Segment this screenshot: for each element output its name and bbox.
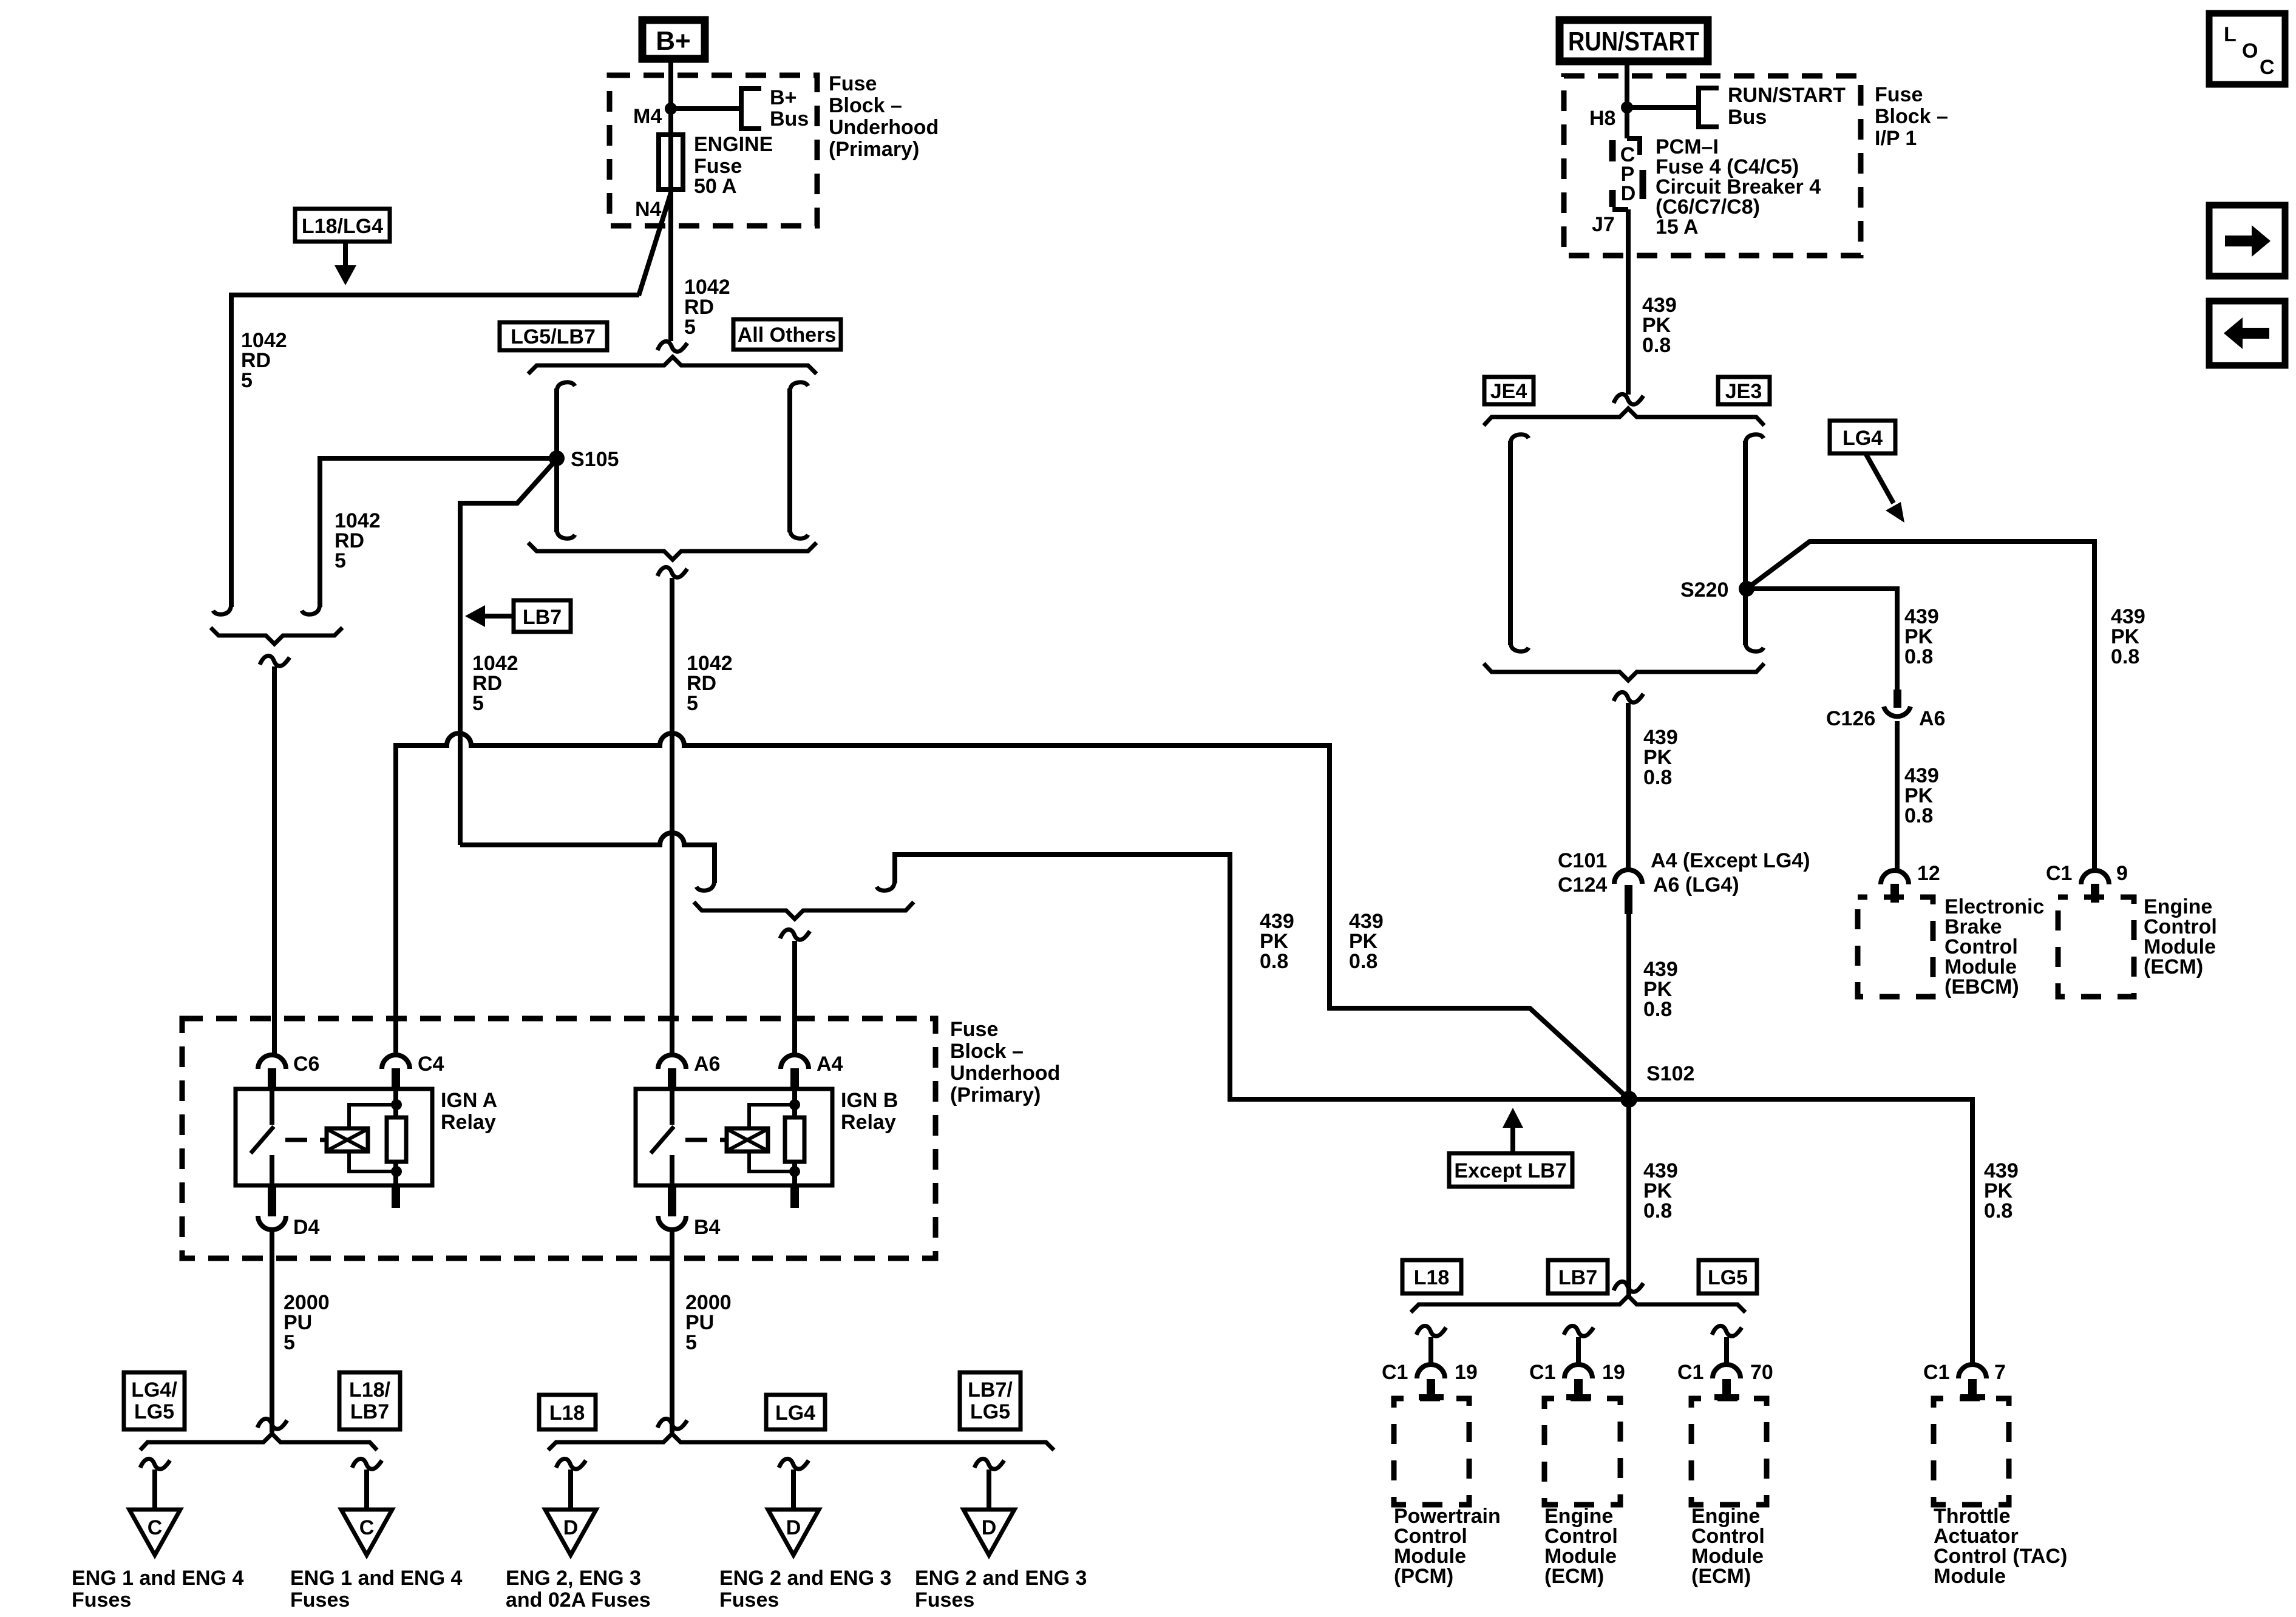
svg-text:0.8: 0.8 — [1260, 950, 1288, 973]
splice S105 — [549, 448, 619, 471]
svg-text:D4: D4 — [293, 1216, 320, 1239]
wire long horizontal to C4 with hops, to S102 via jog — [396, 733, 1626, 1096]
svg-text:5: 5 — [685, 1331, 697, 1354]
option label box LG5/LB7 — [500, 322, 607, 350]
splice S220 — [1680, 578, 1754, 602]
svg-text:L18: L18 — [549, 1402, 585, 1425]
svg-text:ENG 2 and ENG 3: ENG 2 and ENG 3 — [719, 1567, 891, 1590]
svg-text:LG4/: LG4/ — [131, 1378, 177, 1402]
connector C1 70 (ECM) — [1677, 1361, 1773, 1400]
relay IGN B switch — [651, 1088, 674, 1185]
option label box LB7/LG5 — [960, 1372, 1021, 1429]
svg-text:B4: B4 — [694, 1216, 721, 1239]
module ECM2 label — [1691, 1505, 1765, 1588]
option merge brace JE (bottom) — [1484, 663, 1764, 680]
label box Except LB7 with arrow — [1449, 1108, 1572, 1187]
svg-text:Bus: Bus — [1728, 106, 1767, 129]
svg-text:LG5: LG5 — [970, 1400, 1010, 1423]
svg-text:(Primary): (Primary) — [829, 138, 919, 161]
svg-text:D: D — [982, 1516, 997, 1539]
break symbol drop C left — [140, 1459, 170, 1469]
break symbol on B4 drop — [657, 1419, 687, 1429]
wire drop to ECM1 — [1576, 1337, 1581, 1364]
svg-text:Block –: Block – — [1875, 105, 1948, 128]
wire S220 to C126 (horizontal arm) — [1747, 589, 1897, 690]
wire S102 down to engine option split — [1626, 1099, 1631, 1297]
fuse block underhood primary (relay) label — [950, 1018, 1060, 1107]
svg-text:O: O — [2242, 39, 2258, 63]
wire M4 to B+ Bus — [671, 106, 741, 111]
relay IGN A resistor — [387, 1088, 406, 1185]
wire drop to C terminal left — [152, 1470, 157, 1520]
svg-text:C: C — [148, 1516, 163, 1539]
svg-text:L18/: L18/ — [349, 1378, 391, 1402]
wire S102 right arm to TAC — [1629, 1099, 1972, 1364]
svg-text:N4: N4 — [635, 198, 662, 221]
fuse block underhood primary (top) dashed box — [610, 75, 817, 226]
relay IGN A mechanical link dashes — [285, 1138, 327, 1142]
svg-text:IGN A: IGN A — [441, 1089, 497, 1112]
wire C101 to S102 — [1626, 914, 1631, 1091]
destination label ENG 1 and ENG 4 Fuses (left) — [72, 1567, 243, 1612]
svg-text:(ECM): (ECM) — [2144, 955, 2203, 978]
wire label 439 PK 0.8 (LG4 riser) — [2111, 605, 2145, 668]
split brace (ENG2/ENG3 fuses) — [548, 1434, 1054, 1450]
svg-text:RUN/START: RUN/START — [1568, 27, 1699, 56]
inline connector C126 A6 — [1826, 690, 1945, 730]
svg-text:and 02A Fuses: and 02A Fuses — [506, 1588, 651, 1612]
svg-text:0.8: 0.8 — [1984, 1199, 2012, 1222]
wire label 439 PK 0.8 (TAC) — [1984, 1159, 2019, 1222]
svg-text:D: D — [563, 1516, 579, 1539]
svg-text:Fuses: Fuses — [290, 1588, 350, 1612]
wire H8 to RUN/START Bus — [1627, 105, 1698, 110]
svg-text:Fuse: Fuse — [950, 1018, 998, 1041]
power feed B+ box — [642, 20, 705, 59]
svg-text:(EBCM): (EBCM) — [1944, 975, 2019, 998]
pin N4 label — [635, 198, 662, 221]
svg-text:A4: A4 — [817, 1053, 843, 1076]
break symbol drop ECM2 — [1712, 1326, 1742, 1336]
break symbol below JE merge — [1614, 692, 1643, 702]
svg-text:0.8: 0.8 — [2111, 645, 2139, 668]
break symbol drop PCM — [1416, 1326, 1446, 1336]
relay IGN B mechanical link dashes — [685, 1138, 727, 1142]
svg-text:Module: Module — [1934, 1565, 2006, 1588]
fuse block underhood primary (relay) dashed box — [182, 1019, 936, 1258]
wire label 439 PK 0.8 (left of riser) — [1260, 910, 1294, 973]
svg-text:C1: C1 — [1529, 1361, 1555, 1384]
connector D4 — [258, 1198, 320, 1239]
wire D4 drop 2000 PU — [270, 1231, 274, 1432]
svg-text:L18/LG4: L18/LG4 — [302, 215, 383, 238]
svg-text:ENG 1 and ENG 4: ENG 1 and ENG 4 — [72, 1567, 243, 1590]
svg-text:C6: C6 — [293, 1053, 319, 1076]
wire 1042 RD down to A6 — [670, 578, 674, 1055]
relay IGN A coil — [327, 1128, 368, 1151]
break symbol drop C right — [352, 1459, 382, 1469]
svg-text:C: C — [359, 1516, 375, 1539]
wire label 439 PK 0.8 (above C101) — [1643, 726, 1678, 789]
svg-text:J7: J7 — [1592, 213, 1615, 236]
wire LG5/LB7 feed horizontal with hop to A4 brace — [460, 833, 715, 890]
svg-text:Bus: Bus — [770, 107, 809, 131]
break symbol above JE split — [1614, 394, 1643, 404]
svg-text:0.8: 0.8 — [1904, 804, 1933, 827]
wire S105 diagonal arm to LG5/LB7 feed — [460, 462, 554, 845]
svg-text:0.8: 0.8 — [1643, 1199, 1672, 1222]
svg-text:B+: B+ — [656, 26, 690, 56]
wire diagonal N4 to L18/LG4 feed — [639, 193, 671, 296]
connector C1 7 (TAC) — [1923, 1361, 2006, 1400]
wire S102 left arm to A4 brace — [877, 855, 1621, 1099]
svg-text:0.8: 0.8 — [1643, 998, 1672, 1021]
relay IGN B box — [636, 1089, 898, 1185]
module ECM1 label — [1544, 1505, 1618, 1588]
break symbol on C6 feed — [260, 656, 290, 666]
terminal D (L18) — [545, 1510, 596, 1555]
svg-text:Relay: Relay — [441, 1111, 496, 1134]
option merge brace (bottom of split) — [528, 543, 817, 560]
svg-text:S220: S220 — [1680, 578, 1728, 602]
svg-text:ENG 1 and ENG 4: ENG 1 and ENG 4 — [290, 1567, 462, 1590]
svg-text:S102: S102 — [1646, 1062, 1694, 1085]
option branch vertical JE3 — [1745, 435, 1764, 651]
svg-text:A6: A6 — [694, 1053, 720, 1076]
relay IGN A box — [236, 1089, 497, 1185]
svg-text:L18: L18 — [1414, 1266, 1450, 1289]
svg-text:(Primary): (Primary) — [950, 1083, 1041, 1107]
svg-text:5: 5 — [241, 369, 253, 392]
svg-text:7: 7 — [1994, 1361, 2006, 1384]
connector C4 — [382, 1053, 444, 1087]
svg-text:M4: M4 — [633, 105, 662, 128]
merge brace (C6 feed) — [211, 628, 342, 644]
svg-text:C4: C4 — [418, 1053, 444, 1076]
wire A4 drop — [792, 941, 797, 1055]
svg-text:ENG 2, ENG 3: ENG 2, ENG 3 — [506, 1567, 641, 1590]
wire B4 drop 2000 PU — [670, 1231, 674, 1432]
svg-text:Fuses: Fuses — [72, 1588, 131, 1612]
break symbol drop D1 — [556, 1459, 586, 1469]
svg-text:C126: C126 — [1826, 707, 1875, 730]
option label box L18 (right) — [1402, 1260, 1461, 1293]
B+ Bus bracket symbol — [741, 86, 809, 131]
svg-text:LB7: LB7 — [523, 606, 562, 629]
option label box All Others — [733, 319, 841, 350]
svg-text:Relay: Relay — [841, 1111, 896, 1134]
relay IGN B resistor — [785, 1088, 804, 1185]
svg-text:9: 9 — [2116, 862, 2128, 885]
relay IGN A bottom pins — [268, 1185, 400, 1208]
wire label 439 PK 0.8 (above S102) — [1643, 958, 1678, 1021]
relay IGN B bottom pins — [668, 1185, 799, 1208]
legend arrow left box — [2209, 301, 2285, 365]
wire drop to PCM — [1428, 1337, 1433, 1364]
relay IGN A coil branch wires — [349, 1099, 402, 1177]
terminal D (LG4) — [768, 1510, 819, 1555]
splice S102 — [1620, 1062, 1694, 1108]
svg-text:Fuse: Fuse — [1875, 83, 1923, 106]
wire label 439 PK 0.8 (above C126) — [1904, 605, 1939, 668]
connector A6 — [658, 1053, 720, 1087]
svg-text:Fuse: Fuse — [829, 72, 877, 95]
svg-text:A6: A6 — [1919, 707, 1945, 730]
svg-text:LB7/: LB7/ — [968, 1378, 1013, 1402]
svg-text:Except LB7: Except LB7 — [1454, 1159, 1566, 1182]
wire 439 PK from J7 — [1626, 209, 1631, 395]
module ECM (right) label — [2144, 895, 2217, 978]
svg-text:C1: C1 — [1677, 1361, 1703, 1384]
break symbol drop D3 — [974, 1459, 1004, 1469]
svg-text:C124: C124 — [1558, 873, 1607, 897]
wire label 439 PK 0.8 (right of riser) — [1349, 910, 1384, 973]
connector label box LG4 with arrow — [1830, 421, 1904, 523]
svg-text:S105: S105 — [571, 448, 619, 471]
module ECM2 dashed box — [1691, 1398, 1767, 1505]
svg-text:LB7: LB7 — [350, 1400, 389, 1423]
svg-text:C1: C1 — [1382, 1361, 1408, 1384]
svg-text:Fuses: Fuses — [915, 1588, 974, 1612]
module ECM (right) dashed box — [2058, 897, 2134, 997]
svg-text:IGN B: IGN B — [841, 1089, 898, 1112]
inline connector C101 C124 — [1558, 849, 1810, 914]
CPD label PCM-I Fuse 4 Circuit Breaker 4 — [1656, 135, 1821, 239]
wire drop to D terminal 1 — [568, 1470, 573, 1520]
wire drop to ECM2 — [1724, 1337, 1729, 1364]
svg-text:5: 5 — [687, 692, 698, 715]
wire 439 PK down to C101 — [1626, 703, 1631, 869]
svg-text:5: 5 — [335, 549, 346, 572]
module PCM dashed box — [1394, 1398, 1469, 1505]
svg-text:C: C — [2260, 56, 2275, 79]
pin J7 label — [1592, 213, 1615, 236]
option branch vertical LG5/LB7 — [557, 382, 575, 538]
fuse block underhood primary (top) label — [829, 72, 939, 161]
wire RUN/START down to H8 — [1625, 61, 1629, 138]
svg-text:LB7: LB7 — [1558, 1266, 1597, 1289]
circuit protection device CPD symbol — [1612, 138, 1643, 209]
svg-text:H8: H8 — [1589, 107, 1615, 130]
option split brace (top) — [528, 357, 817, 374]
svg-text:JE3: JE3 — [1725, 380, 1762, 403]
option split brace JE (top) — [1484, 408, 1764, 425]
module TAC dashed box — [1934, 1398, 2009, 1505]
connector label box LB7 with arrow — [465, 600, 571, 632]
module ECM1 dashed box — [1544, 1398, 1620, 1505]
svg-text:I/P 1: I/P 1 — [1875, 127, 1917, 150]
connector label box L18/LG4 with arrow — [295, 209, 390, 285]
svg-text:5: 5 — [684, 316, 696, 339]
svg-text:A4 (Except LG4): A4 (Except LG4) — [1651, 849, 1810, 872]
relay IGN A switch — [251, 1088, 274, 1185]
break symbol below merge — [657, 567, 687, 577]
fuse block I/P 1 dashed box — [1564, 76, 1861, 256]
wire S220 to LG4 riser (diagonal arm) — [1747, 541, 2094, 870]
svg-text:(ECM): (ECM) — [1691, 1565, 1751, 1588]
relay IGN B coil — [727, 1128, 768, 1151]
break symbol on A4 drop — [780, 929, 810, 940]
svg-text:RUN/START: RUN/START — [1728, 84, 1846, 107]
svg-text:(ECM): (ECM) — [1544, 1565, 1604, 1588]
option label box LG4 (bottom) — [766, 1395, 825, 1429]
svg-text:50 A: 50 A — [694, 175, 737, 198]
module EBCM dashed box — [1858, 897, 1933, 997]
svg-text:D: D — [1621, 182, 1636, 205]
wire label 439 PK 0.8 (below C126) — [1904, 764, 1939, 827]
wire end hook (left drop) — [213, 598, 231, 614]
svg-text:L: L — [2224, 23, 2237, 46]
svg-text:JE4: JE4 — [1490, 380, 1527, 403]
option branch vertical All Others — [790, 382, 808, 538]
svg-text:Block –: Block – — [829, 94, 902, 117]
connector C1 9 — [2046, 862, 2128, 903]
wire label 2000 PU 5 (center) — [685, 1291, 732, 1354]
option split brace (modules) — [1411, 1296, 1745, 1312]
split brace (ENG1/ENG4 fuses) — [140, 1434, 377, 1450]
module TAC label — [1934, 1505, 2067, 1588]
svg-text:19: 19 — [1602, 1361, 1625, 1384]
svg-text:LG5: LG5 — [1708, 1266, 1748, 1289]
RUN/START Bus bracket symbol — [1699, 84, 1846, 129]
destination label ENG 2, ENG 3 and 02A Fuses — [506, 1567, 651, 1612]
wire C6 feed down — [272, 666, 277, 1055]
option label box LG5 (right) — [1699, 1260, 1757, 1293]
connector C1 19 (ECM) — [1529, 1361, 1625, 1400]
svg-text:5: 5 — [284, 1331, 295, 1354]
wire label 1042 RD 5 (left column) — [241, 329, 287, 392]
wire label 1042 RD 5 (below fuse) — [684, 276, 730, 339]
wire drop to C terminal right — [364, 1470, 369, 1520]
wire label 439 PK 0.8 (J7) — [1642, 294, 1677, 357]
svg-text:5: 5 — [472, 692, 484, 715]
svg-text:12: 12 — [1917, 862, 1940, 885]
fuse block I/P 1 label — [1875, 83, 1948, 150]
relay IGN B coil branch wires — [749, 1099, 800, 1177]
wire drop to D terminal 3 — [987, 1470, 991, 1520]
option branch vertical JE4 — [1510, 435, 1529, 651]
break symbol on D4 drop — [257, 1419, 287, 1429]
svg-text:C1: C1 — [2046, 862, 2072, 885]
connector B4 — [658, 1198, 721, 1239]
break symbol drop D2 — [779, 1459, 809, 1469]
svg-text:LG5: LG5 — [134, 1400, 174, 1423]
wire label 2000 PU 5 (left) — [284, 1291, 330, 1354]
terminal C (LG4/LG5) — [129, 1510, 180, 1555]
wire label 439 PK 0.8 (below S102) — [1643, 1159, 1678, 1222]
svg-text:19: 19 — [1455, 1361, 1478, 1384]
option label box L18/LB7 — [339, 1372, 400, 1429]
node M4 junction dot — [633, 103, 677, 128]
svg-text:15 A: 15 A — [1656, 215, 1699, 239]
wire C126 to EBCM — [1895, 721, 1900, 870]
svg-text:70: 70 — [1750, 1361, 1773, 1384]
svg-text:0.8: 0.8 — [1642, 334, 1671, 357]
option label box L18 (bottom) — [539, 1395, 596, 1429]
connector label box JE3 — [1718, 377, 1770, 404]
svg-text:0.8: 0.8 — [1904, 645, 1933, 668]
node H8 junction dot — [1589, 101, 1633, 130]
wire label 1042 RD 5 (All Others drop) — [687, 652, 733, 715]
terminal D (LB7/LG5) — [963, 1510, 1014, 1555]
gather brace A4 — [694, 902, 914, 919]
connector A4 — [781, 1053, 843, 1087]
option label box LB7 (right) — [1548, 1260, 1608, 1293]
break symbol above engine split — [1614, 1281, 1643, 1292]
option label box LG4/LG5 — [124, 1372, 185, 1429]
svg-text:Underhood: Underhood — [950, 1062, 1060, 1085]
connector label box JE4 — [1484, 377, 1533, 404]
svg-text:C1: C1 — [1923, 1361, 1949, 1384]
connector C1 19 (PCM) — [1382, 1361, 1478, 1400]
svg-text:All Others: All Others — [738, 324, 836, 347]
svg-text:D: D — [786, 1516, 801, 1539]
svg-text:LG4: LG4 — [1843, 427, 1883, 450]
module EBCM label — [1944, 895, 2044, 998]
destination label ENG 2 and ENG 3 Fuses (LG4) — [719, 1567, 891, 1612]
svg-text:Block –: Block – — [950, 1040, 1024, 1063]
svg-text:B+: B+ — [770, 86, 796, 109]
wire drop to D terminal 2 — [791, 1470, 796, 1520]
wire label 1042 RD 5 (C6 drop) — [335, 509, 381, 572]
wire 1042 RD from B+ through ENGINE fuse — [668, 59, 673, 341]
destination label ENG 1 and ENG 4 Fuses (right) — [290, 1567, 462, 1612]
svg-text:Fuses: Fuses — [719, 1588, 779, 1612]
wire S105 left arm to C6 drop — [302, 458, 557, 614]
svg-text:0.8: 0.8 — [1643, 766, 1672, 789]
fuse ENGINE 50 A — [659, 133, 773, 198]
svg-text:(PCM): (PCM) — [1394, 1565, 1453, 1588]
legend LOC box — [2209, 13, 2285, 84]
svg-text:A6 (LG4): A6 (LG4) — [1653, 873, 1739, 897]
svg-text:0.8: 0.8 — [1349, 950, 1377, 973]
svg-text:LG4: LG4 — [775, 1402, 815, 1425]
power feed RUN/START box — [1560, 20, 1708, 61]
destination label ENG 2 and ENG 3 Fuses (LB7/LG5) — [915, 1567, 1087, 1612]
wire label 1042 RD 5 (LG5/LB7 drop) — [472, 652, 518, 715]
break symbol drop ECM1 — [1564, 1326, 1594, 1336]
terminal C (L18/LB7) — [341, 1510, 392, 1555]
break symbol on 1042 RD wire above split — [657, 341, 687, 351]
svg-text:LG5/LB7: LG5/LB7 — [511, 325, 596, 348]
svg-text:Underhood: Underhood — [829, 116, 939, 139]
wire L18/LG4 branch horizontal and left drop — [231, 295, 639, 607]
svg-text:ENGINE: ENGINE — [694, 133, 773, 156]
connector C6 — [258, 1053, 319, 1087]
module PCM label — [1394, 1505, 1501, 1588]
connector 12 (EBCM) — [1881, 862, 1940, 903]
svg-text:ENG 2 and ENG 3: ENG 2 and ENG 3 — [915, 1567, 1087, 1590]
svg-text:C101: C101 — [1558, 849, 1607, 872]
legend arrow right box — [2209, 205, 2285, 276]
